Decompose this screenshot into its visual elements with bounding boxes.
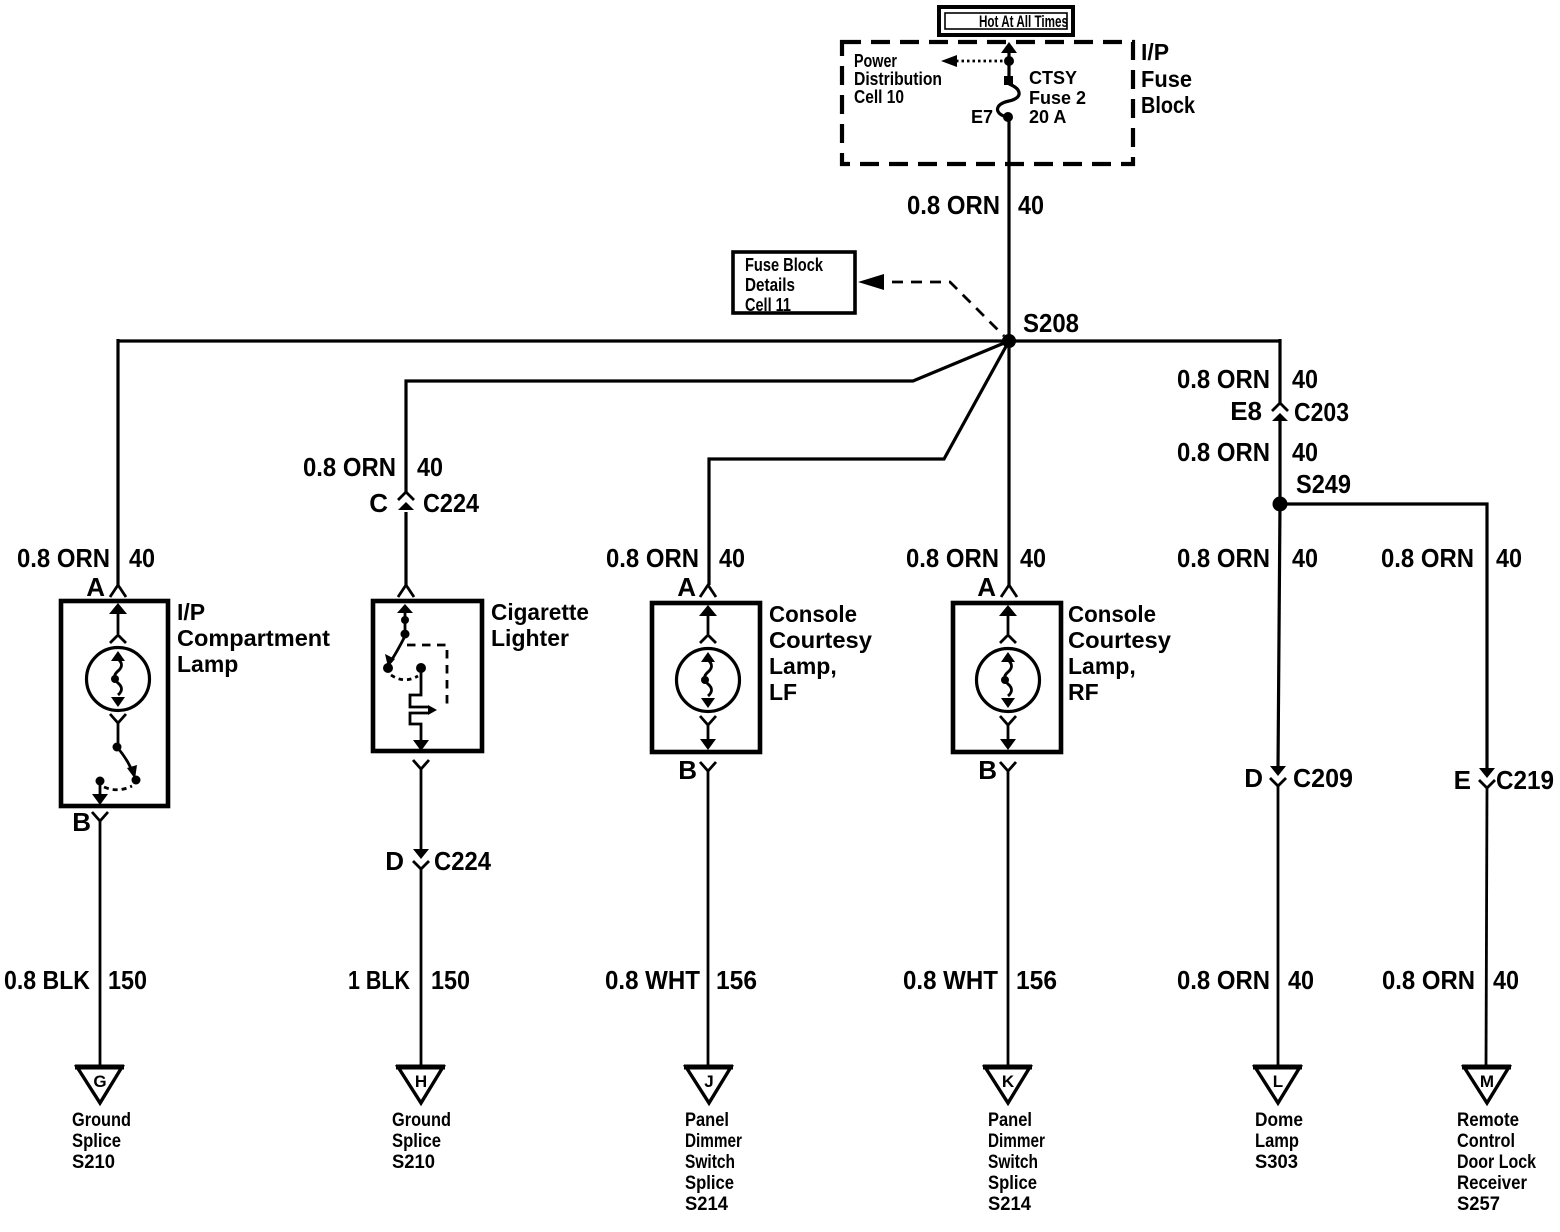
svg-text:0.8 ORN: 0.8 ORN <box>1177 543 1270 573</box>
svg-text:C203: C203 <box>1294 397 1349 427</box>
wire label 0.8 ORN 40 (remote receiver feed) <box>1381 543 1522 573</box>
svg-text:L: L <box>1273 1072 1283 1091</box>
connector half below cigarette lighter <box>413 760 429 769</box>
ground symbol H <box>396 1067 445 1103</box>
svg-text:Power: Power <box>854 51 897 71</box>
svg-text:CTSY: CTSY <box>1029 68 1077 88</box>
wire C219 to remote receiver <box>1486 788 1487 1066</box>
label Console Courtesy Lamp RF <box>1068 601 1171 705</box>
wire label 0.8 WHT 156 (RF) <box>903 965 1057 995</box>
wire fuse output down to S208 <box>1007 117 1010 341</box>
svg-text:150: 150 <box>431 965 470 995</box>
svg-text:Distribution: Distribution <box>854 69 942 89</box>
svg-text:0.8 WHT: 0.8 WHT <box>903 965 998 995</box>
svg-text:Fuse 2: Fuse 2 <box>1029 88 1086 108</box>
connector C224 pin D (inline, down) <box>385 846 491 876</box>
wire I/P compartment lamp to ground splice <box>99 831 102 1066</box>
svg-text:40: 40 <box>1496 543 1522 573</box>
svg-text:Dome: Dome <box>1255 1109 1303 1131</box>
svg-text:Console: Console <box>769 601 857 627</box>
svg-text:RF: RF <box>1068 679 1099 705</box>
svg-text:0.8 ORN: 0.8 ORN <box>303 452 396 482</box>
splice S249 junction dot <box>1273 497 1288 512</box>
ground symbol G <box>75 1067 124 1103</box>
label Ground Splice S210 (cig lighter) <box>392 1109 451 1173</box>
svg-text:Fuse: Fuse <box>1141 66 1192 92</box>
svg-text:40: 40 <box>719 543 745 573</box>
svg-text:Door Lock: Door Lock <box>1457 1151 1536 1173</box>
svg-text:0.8 ORN: 0.8 ORN <box>1381 543 1474 573</box>
svg-text:S249: S249 <box>1296 469 1351 499</box>
svg-text:Compartment: Compartment <box>177 625 330 651</box>
svg-text:Ground: Ground <box>392 1109 451 1131</box>
wire label 1 BLK 150 <box>348 965 470 995</box>
splice symbol M <box>1462 1067 1511 1103</box>
svg-text:Lamp,: Lamp, <box>1068 653 1136 679</box>
arrow to power distribution (dotted) <box>941 55 1009 67</box>
svg-text:40: 40 <box>1018 190 1044 220</box>
svg-text:156: 156 <box>1016 965 1057 995</box>
svg-text:I/P: I/P <box>1141 39 1169 65</box>
svg-text:C224: C224 <box>434 846 491 876</box>
svg-text:40: 40 <box>1292 543 1318 573</box>
svg-text:S303: S303 <box>1255 1151 1298 1173</box>
power label box "Hot At All Times" <box>939 7 1073 35</box>
dashed arrow from S208 to fuse block details <box>858 274 1004 336</box>
svg-text:Courtesy: Courtesy <box>769 627 872 653</box>
svg-text:0.8 WHT: 0.8 WHT <box>605 965 700 995</box>
svg-text:0.8 ORN: 0.8 ORN <box>1382 965 1475 995</box>
svg-text:Switch: Switch <box>685 1151 735 1173</box>
svg-text:40: 40 <box>1292 364 1318 394</box>
svg-text:Remote: Remote <box>1457 1109 1519 1131</box>
svg-text:I/P: I/P <box>177 599 205 625</box>
svg-text:Cell 11: Cell 11 <box>745 295 791 315</box>
svg-text:Ground: Ground <box>72 1109 131 1131</box>
wire label 0.8 ORN 40 (dome) <box>1177 965 1314 995</box>
lamp E1 I/P Compartment Lamp <box>61 601 168 806</box>
svg-text:Cell 10: Cell 10 <box>854 87 904 107</box>
label Power Distribution Cell 10 <box>854 51 942 107</box>
svg-text:0.8 ORN: 0.8 ORN <box>1177 364 1270 394</box>
svg-text:150: 150 <box>108 965 147 995</box>
wire label 0.8 ORN 40 (below C203) <box>1177 437 1318 467</box>
svg-text:20 A: 20 A <box>1029 107 1066 127</box>
svg-text:Dimmer: Dimmer <box>988 1130 1045 1152</box>
svg-text:G: G <box>93 1072 106 1091</box>
wire label 0.8 ORN 40 (console lamp LF feed) <box>606 543 745 573</box>
svg-text:S208: S208 <box>1023 308 1079 338</box>
svg-text:Splice: Splice <box>988 1172 1037 1194</box>
svg-text:B: B <box>678 755 697 785</box>
connector C209 pin D (inline, down) <box>1244 763 1353 793</box>
svg-text:0.8 ORN: 0.8 ORN <box>1177 437 1270 467</box>
svg-text:Receiver: Receiver <box>1457 1172 1527 1194</box>
svg-text:40: 40 <box>1493 965 1519 995</box>
label I/P Compartment Lamp <box>177 599 330 677</box>
svg-text:C: C <box>369 488 388 518</box>
svg-text:40: 40 <box>1288 965 1314 995</box>
svg-text:Console: Console <box>1068 601 1156 627</box>
svg-text:S210: S210 <box>72 1151 115 1173</box>
svg-text:Lamp: Lamp <box>177 651 238 677</box>
svg-text:0.8 ORN: 0.8 ORN <box>17 543 110 573</box>
connector C219 pin E (inline, down) <box>1454 765 1554 795</box>
svg-text:Panel: Panel <box>685 1109 729 1131</box>
cigarette lighter <box>373 601 482 751</box>
svg-text:Hot At All Times: Hot At All Times <box>979 12 1068 31</box>
wire S249 down to dome lamp <box>1278 504 1280 768</box>
svg-text:156: 156 <box>716 965 757 995</box>
svg-text:C224: C224 <box>423 488 479 518</box>
svg-text:B: B <box>978 755 997 785</box>
svg-text:E7: E7 <box>971 107 993 127</box>
svg-text:D: D <box>385 846 404 876</box>
connector half above cigarette lighter <box>398 585 414 597</box>
label Console Courtesy Lamp LF <box>769 601 872 705</box>
svg-text:0.8 ORN: 0.8 ORN <box>906 543 999 573</box>
svg-text:0.8 ORN: 0.8 ORN <box>907 190 1000 220</box>
label Cigarette Lighter <box>491 599 589 651</box>
svg-text:40: 40 <box>1020 543 1046 573</box>
svg-text:Details: Details <box>745 275 795 295</box>
svg-text:40: 40 <box>1292 437 1318 467</box>
label I/P Fuse Block <box>1141 39 1195 118</box>
svg-text:40: 40 <box>417 452 443 482</box>
svg-text:A: A <box>977 572 996 602</box>
svg-text:Lamp,: Lamp, <box>769 653 837 679</box>
fuse F2 CTSY 20 A symbol <box>997 76 1019 122</box>
connector C224 pin C (inline, up) <box>369 488 479 518</box>
wire main horizontal bus from S208 <box>118 339 1280 342</box>
svg-text:Control: Control <box>1457 1130 1515 1152</box>
connector half A (console lamp LF) <box>700 585 716 597</box>
splice symbol J <box>684 1067 733 1103</box>
svg-text:M: M <box>1480 1072 1494 1091</box>
svg-text:Splice: Splice <box>72 1130 121 1152</box>
svg-text:C209: C209 <box>1293 763 1353 793</box>
wire branch to cigarette lighter <box>406 341 1009 492</box>
wire label 0.8 ORN 40 (I/P compartment lamp feed) <box>17 543 155 573</box>
svg-text:S214: S214 <box>685 1193 728 1215</box>
svg-text:C219: C219 <box>1496 765 1554 795</box>
svg-text:Splice: Splice <box>392 1130 441 1152</box>
wire branch right to S249 <box>1278 339 1281 404</box>
svg-text:Cigarette: Cigarette <box>491 599 589 625</box>
svg-text:Dimmer: Dimmer <box>685 1130 742 1152</box>
svg-text:0.8 ORN: 0.8 ORN <box>1177 965 1270 995</box>
wire C224 to ground splice <box>420 869 423 1066</box>
wire S249 to remote receiver branch <box>1280 504 1487 770</box>
svg-text:S214: S214 <box>988 1193 1031 1215</box>
svg-text:B: B <box>72 807 91 837</box>
svg-text:E: E <box>1454 765 1471 795</box>
connector half B (I/P compartment lamp) <box>92 812 108 821</box>
label Panel Dimmer Switch Splice S214 (LF) <box>685 1109 742 1215</box>
wire console lamp LF to panel dimmer splice <box>707 781 710 1066</box>
svg-text:K: K <box>1002 1072 1015 1091</box>
lamp console courtesy RF <box>953 603 1061 752</box>
svg-text:Block: Block <box>1141 92 1195 118</box>
connector half A (console lamp RF) <box>1001 585 1017 597</box>
connector half B (console lamp LF) <box>700 762 716 771</box>
svg-text:H: H <box>415 1072 427 1091</box>
arrow up to hot feed <box>1001 42 1017 80</box>
wire label 0.8 ORN 40 (cigarette lighter feed) <box>303 452 443 482</box>
svg-text:Panel: Panel <box>988 1109 1032 1131</box>
svg-text:0.8 BLK: 0.8 BLK <box>4 965 90 995</box>
svg-text:Fuse Block: Fuse Block <box>745 255 824 275</box>
svg-text:A: A <box>86 572 105 602</box>
wire branch to console lamp RF <box>1007 341 1010 585</box>
svg-text:A: A <box>677 572 696 602</box>
connector C203 pin E8 (inline, up) <box>1230 396 1349 427</box>
wire label 0.8 ORN 40 (dome lamp feed) <box>1177 543 1318 573</box>
lamp console courtesy LF <box>652 603 760 752</box>
label Panel Dimmer Switch Splice S214 (RF) <box>988 1109 1045 1215</box>
svg-text:S257: S257 <box>1457 1193 1500 1215</box>
label Ground Splice S210 (left) <box>72 1109 131 1173</box>
wire label 0.8 ORN 40 (fuse output) <box>907 190 1044 220</box>
junction dot at fuse top <box>1004 56 1014 66</box>
I/P fuse block boundary (dashed) <box>842 42 1133 164</box>
wire console lamp RF to panel dimmer splice <box>1007 781 1010 1066</box>
svg-text:J: J <box>704 1072 713 1091</box>
splice symbol K <box>983 1067 1032 1103</box>
connector half A (I/P compartment lamp) <box>110 585 126 597</box>
svg-text:LF: LF <box>769 679 797 705</box>
connector half B (console lamp RF) <box>1000 762 1016 771</box>
wire cigarette lighter to C224 <box>420 779 423 850</box>
svg-text:1 BLK: 1 BLK <box>348 965 410 995</box>
label Dome Lamp S303 <box>1255 1109 1303 1173</box>
wire branch to console lamp LF <box>709 341 1009 585</box>
svg-text:Lighter: Lighter <box>491 625 569 651</box>
svg-text:Courtesy: Courtesy <box>1068 627 1171 653</box>
svg-text:0.8 ORN: 0.8 ORN <box>606 543 699 573</box>
svg-text:40: 40 <box>129 543 155 573</box>
wire label 0.8 WHT 156 (LF) <box>605 965 757 995</box>
svg-text:E8: E8 <box>1230 396 1262 426</box>
label Remote Control Door Lock Receiver S257 <box>1457 1109 1536 1215</box>
wire label 0.8 BLK 150 <box>4 965 147 995</box>
splice S208 junction dot <box>1002 334 1016 348</box>
splice symbol L <box>1253 1067 1302 1103</box>
label box Fuse Block Details Cell 11 <box>733 252 855 315</box>
svg-text:Switch: Switch <box>988 1151 1038 1173</box>
svg-text:D: D <box>1244 763 1263 793</box>
wire label 0.8 ORN 40 (above C203) <box>1177 364 1318 394</box>
wire label 0.8 ORN 40 (remote) <box>1382 965 1519 995</box>
wire branch to I/P compartment lamp (left drop) <box>116 339 119 585</box>
svg-text:Lamp: Lamp <box>1255 1130 1299 1152</box>
wire label 0.8 ORN 40 (console lamp RF feed) <box>906 543 1046 573</box>
svg-text:S210: S210 <box>392 1151 435 1173</box>
svg-text:Splice: Splice <box>685 1172 734 1194</box>
wire C209 to dome lamp <box>1277 786 1280 1066</box>
fuse value label CTSY Fuse 2 20 A <box>1029 68 1086 127</box>
